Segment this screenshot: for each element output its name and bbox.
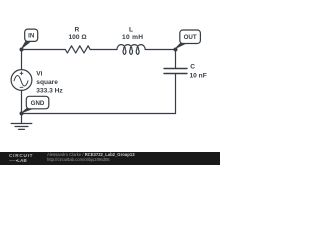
- ground symbol stem: [21, 114, 23, 124]
- svg-text:10 nF: 10 nF: [190, 72, 207, 79]
- wire top horizontal left (IN node to resistor): [22, 49, 66, 51]
- wire capacitor down to bottom-right corner: [175, 74, 177, 114]
- voltage source minus sign: [20, 86, 24, 88]
- ground symbol bar 2: [15, 126, 28, 128]
- inductor L1 coil: [117, 45, 145, 55]
- junction dot node IN: [20, 48, 24, 52]
- junction dot node GND: [20, 112, 24, 116]
- ground symbol bar 3: [19, 128, 25, 130]
- wire bottom horizontal: [22, 113, 176, 115]
- flag OUT box: [180, 30, 201, 44]
- svg-text:C: C: [190, 63, 195, 70]
- bottom attribution bar: [0, 152, 220, 165]
- svg-text:L: L: [129, 27, 133, 34]
- voltage source V1 sine wave: [14, 76, 28, 87]
- wire top-left vertical (IN node down to source): [21, 50, 23, 70]
- resistor R1 zigzag: [65, 46, 91, 53]
- svg-text:IN: IN: [28, 33, 35, 40]
- flag GND box: [26, 96, 49, 109]
- flag GND pointer: [22, 108, 33, 113]
- junction dot node OUT: [174, 48, 178, 52]
- wire between resistor and inductor: [92, 49, 117, 51]
- capacitor C1 bottom plate: [164, 73, 187, 75]
- svg-text:OUT: OUT: [184, 34, 197, 41]
- wire inductor to OUT node: [146, 49, 176, 51]
- flag IN pointer: [22, 41, 31, 49]
- svg-text:333.3 Hz: 333.3 Hz: [36, 88, 63, 95]
- voltage source plus sign: [20, 72, 24, 88]
- svg-text:10 mH: 10 mH: [122, 34, 143, 41]
- svg-text:100 Ω: 100 Ω: [69, 34, 88, 41]
- flag IN box: [25, 29, 38, 41]
- ground symbol bar 1: [11, 123, 32, 125]
- svg-text:square: square: [36, 79, 58, 86]
- svg-text:Vi: Vi: [36, 71, 42, 78]
- attribution text line 1: [47, 153, 135, 162]
- svg-text:GND: GND: [31, 100, 45, 107]
- svg-text:R: R: [75, 27, 80, 34]
- voltage source V1 circle: [11, 70, 32, 91]
- wire OUT node down to capacitor: [175, 50, 177, 69]
- CircuitLab logo: [9, 154, 37, 164]
- capacitor C1 top plate: [164, 68, 187, 70]
- wire source bottom to GND node: [21, 90, 23, 113]
- flag OUT pointer: [175, 43, 184, 48]
